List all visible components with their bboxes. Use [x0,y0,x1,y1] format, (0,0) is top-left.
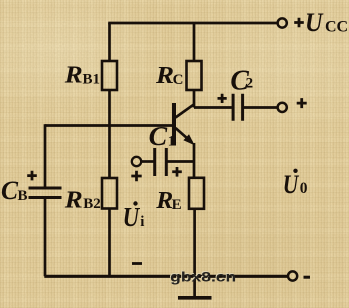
plus sign at C1 right [172,167,182,177]
svg-text:B2: B2 [83,196,101,212]
capacitor C2 [233,94,243,121]
resistor RB2 [102,178,117,209]
terminal input [132,157,141,166]
resistor RC [187,61,202,90]
transistor Q1 emitter arrowhead [183,134,194,145]
capacitor CB [29,188,62,198]
watermark gbx8.cn [169,269,236,286]
svg-text:R: R [155,62,174,89]
minus sign at output- [304,276,311,279]
wire C2 to output terminal [244,106,278,109]
svg-text:i: i [140,214,144,230]
plus sign at Ucc [294,18,304,28]
svg-text:gbx8.cn: gbx8.cn [170,270,236,286]
wire input to C1 [141,160,153,163]
wire RB1 to base node [108,90,111,178]
minus sign at Ui [132,262,142,265]
transistor Q1 collector lead [176,104,195,117]
wire base [45,124,173,127]
svg-text:1: 1 [168,134,176,150]
svg-text:E: E [172,197,182,213]
wire collector to C2 [194,106,232,109]
resistor RB1 [102,61,117,90]
svg-text:U: U [283,169,300,199]
svg-text:U: U [305,7,324,37]
transistor Q1 base bar [172,103,176,146]
svg-text:C: C [1,175,18,205]
svg-text:2: 2 [246,76,254,92]
wire CB to bottom rail [44,199,47,277]
svg-text:R: R [155,187,173,214]
wire RC branch top [193,23,196,61]
wire CB branch top [44,124,47,187]
resistor RE [189,178,204,209]
terminal Vcc [278,18,287,27]
wire top rail [108,22,277,25]
svg-text:B: B [18,188,28,204]
terminal output- [288,271,297,280]
transistor Q1 emitter lead [176,128,193,143]
ground [178,296,212,300]
plus sign at CB [27,171,37,181]
svg-text:0: 0 [300,180,308,197]
plus sign at C2 left [218,94,227,103]
wire left branch upper (Vcc to RB1) [108,23,111,61]
svg-text:R: R [64,186,83,213]
svg-text:B1: B1 [83,72,101,88]
terminal output+ [278,103,287,112]
svg-text:U: U [123,201,141,232]
wire RB2 to bottom rail [108,209,111,277]
wire C1 to emitter node [168,160,195,163]
plus sign at input terminal [131,171,141,181]
wire emitter down to RE [193,143,196,179]
svg-text:C: C [173,72,184,88]
wire RC to collector [193,90,196,108]
svg-text:C: C [149,120,168,151]
svg-text:R: R [64,62,83,89]
wire bottom rail [44,275,288,278]
wire RE to ground [193,209,196,297]
capacitor C1 [155,148,167,176]
svg-text:CC: CC [325,19,348,36]
plus sign at output [297,98,307,108]
